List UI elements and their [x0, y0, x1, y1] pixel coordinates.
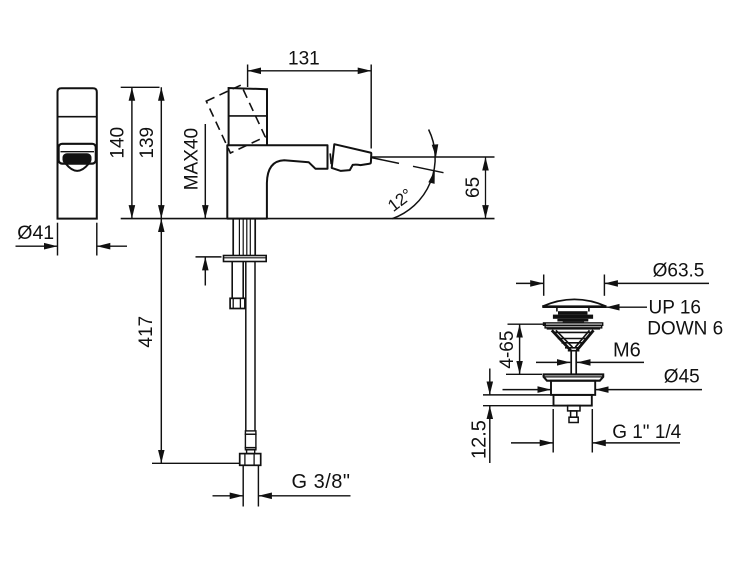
svg-text:MAX40: MAX40: [182, 128, 203, 190]
svg-text:140: 140: [107, 127, 128, 159]
svg-text:131: 131: [288, 48, 320, 69]
svg-text:65: 65: [463, 177, 484, 198]
svg-text:UP 16: UP 16: [649, 298, 701, 319]
svg-text:417: 417: [136, 316, 157, 348]
svg-text:139: 139: [137, 127, 158, 159]
svg-text:M6: M6: [613, 340, 641, 362]
svg-text:12.5: 12.5: [468, 420, 490, 459]
svg-text:4-65: 4-65: [497, 331, 518, 369]
svg-text:G 3/8": G 3/8": [292, 471, 351, 493]
svg-text:G 1" 1/4: G 1" 1/4: [612, 422, 681, 443]
svg-text:DOWN 6: DOWN 6: [647, 319, 723, 340]
svg-text:Ø41: Ø41: [17, 222, 54, 244]
svg-text:Ø45: Ø45: [664, 366, 700, 387]
svg-text:Ø63.5: Ø63.5: [653, 260, 705, 281]
